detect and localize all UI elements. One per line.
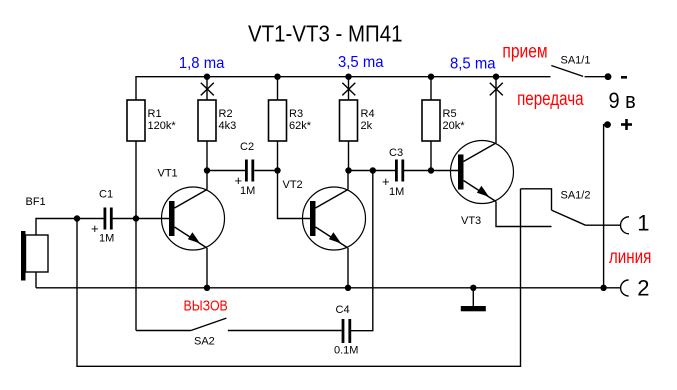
node junction top R5 [428, 74, 434, 80]
svg-text:передача: передача [517, 89, 584, 110]
measurement break X at VT3 collector [490, 83, 503, 96]
svg-text:20k*: 20k* [443, 120, 466, 132]
wire C4 right lead up to middle bus [350, 171, 373, 331]
node junction top VT3 collector [493, 74, 499, 80]
measurement break X at R4 [342, 83, 355, 96]
svg-text:9 в: 9 в [609, 88, 636, 113]
resistor R3 [269, 100, 287, 141]
wire R3 bottom lead [277, 141, 279, 171]
wire BF1 top lead [36, 219, 77, 236]
svg-text:4k3: 4k3 [219, 120, 237, 132]
svg-text:1M: 1M [389, 186, 404, 198]
wire R1 bottom lead to base node [135, 141, 137, 219]
wire battery plus to line [604, 125, 608, 288]
svg-text:C3: C3 [389, 147, 403, 159]
wire VT2 collector lead [347, 171, 349, 190]
node junction R5 bottom / VT3 base [428, 167, 434, 173]
ground symbol [461, 288, 486, 312]
terminal 1 socket [621, 217, 630, 234]
loudspeaker BF1 [21, 231, 48, 281]
svg-text:120k*: 120k* [148, 120, 177, 132]
transistor VT1 [162, 187, 225, 250]
svg-text:1M: 1M [99, 233, 114, 245]
wire speaker return bottom [77, 189, 521, 366]
resistor R2 [198, 100, 216, 141]
svg-text:R4: R4 [361, 108, 375, 120]
svg-text:8,5 ma: 8,5 ma [450, 56, 496, 73]
svg-text:ВЫЗОВ: ВЫЗОВ [184, 298, 228, 315]
battery minus terminal [605, 73, 612, 80]
svg-text:R3: R3 [289, 108, 303, 120]
wire C2 right lead [254, 170, 277, 172]
svg-text:VT1: VT1 [158, 168, 178, 180]
svg-text:C2: C2 [240, 141, 254, 153]
wire VT1 collector lead [206, 171, 208, 190]
node junction top R4 [345, 74, 351, 80]
wire ground rail [36, 287, 604, 289]
svg-text:C4: C4 [336, 304, 350, 316]
wire C1 left lead [77, 218, 104, 220]
wire C3 right lead [403, 170, 431, 172]
svg-text:+: + [91, 221, 99, 236]
svg-text:R1: R1 [148, 108, 162, 120]
svg-text:1,8 ma: 1,8 ma [179, 55, 225, 72]
wire R5 bottom lead [430, 141, 432, 171]
wire VT2 base feed [278, 171, 312, 219]
wire C2 left lead [207, 170, 245, 172]
resistor R1 [127, 100, 145, 141]
wire to terminal 2 [604, 287, 621, 289]
wire VT3 base lead [431, 170, 460, 172]
switch SA1/1 [551, 66, 605, 77]
battery plus terminal [604, 121, 611, 128]
terminal 2 socket [621, 280, 629, 296]
svg-text:C1: C1 [99, 189, 113, 201]
wire R5 top lead [430, 77, 432, 100]
svg-text:2: 2 [637, 276, 649, 301]
svg-text:62k*: 62k* [289, 120, 312, 132]
svg-text:VT3: VT3 [461, 215, 481, 227]
node junction VT1 base / R1 / SA2 [133, 215, 139, 221]
svg-text:VT1-VT3 - МП41: VT1-VT3 - МП41 [248, 20, 403, 46]
wire SA2 branch from base node [135, 219, 137, 331]
resistor R4 [340, 100, 358, 141]
wire BF1 bottom lead [35, 272, 37, 288]
switch SA1/2 [521, 189, 621, 225]
transistor VT2 [303, 187, 366, 250]
node junction terminal 2 [600, 285, 606, 291]
svg-text:SA1/2: SA1/2 [561, 190, 591, 202]
node junction top R2 [204, 74, 210, 80]
wire R3 top lead [277, 77, 279, 100]
svg-text:1: 1 [637, 211, 649, 236]
wire VT3 collector lead [495, 77, 497, 143]
node junction C1 left / speaker top [74, 215, 80, 221]
node junction VT1 emitter on rail [204, 285, 210, 291]
node junction R4 bottom / VT2 collector / C3 left [345, 167, 351, 173]
switch SA2 [136, 318, 342, 330]
node junction C4 branch [370, 167, 376, 173]
wire VT1 emitter lead [206, 248, 208, 288]
wire R4 bottom lead [348, 141, 350, 171]
resistor R5 [422, 100, 440, 141]
measurement break X at R2 [201, 83, 214, 96]
svg-text:1M: 1M [240, 185, 255, 197]
wire VT1 base lead [136, 218, 171, 220]
label plus [621, 119, 632, 130]
svg-text:R5: R5 [443, 108, 457, 120]
svg-text:SA2: SA2 [194, 336, 215, 348]
node junction ground on rail [470, 285, 476, 291]
node junction VT1 collector / C2 left [204, 167, 210, 173]
wire top bus [136, 77, 551, 100]
svg-text:R2: R2 [219, 108, 233, 120]
svg-text:VT2: VT2 [283, 179, 303, 191]
wire VT2 emitter lead [347, 248, 349, 288]
transistor VT3 [451, 141, 514, 204]
capacitor C1 [105, 208, 111, 230]
svg-text:SA1/1: SA1/1 [561, 55, 591, 67]
capacitor C3 [396, 160, 402, 182]
svg-text:BF1: BF1 [26, 196, 46, 208]
wire R4 top lead [348, 77, 350, 100]
svg-text:3,5 ma: 3,5 ma [338, 54, 384, 71]
svg-text:прием: прием [502, 41, 547, 62]
node junction R3 bottom / VT2 base feed [274, 167, 280, 173]
wire VT3 emitter lead [496, 202, 552, 227]
svg-text:линия: линия [609, 247, 652, 268]
node junction top R3 [274, 74, 280, 80]
node junction VT2 emitter on rail [345, 285, 351, 291]
wire R2 top lead [206, 77, 208, 100]
wire middle bus to C3 [349, 170, 396, 172]
wire R2 bottom lead [206, 141, 208, 171]
capacitor C2 [246, 160, 252, 182]
capacitor C4 [343, 319, 350, 343]
label minus [621, 76, 627, 79]
svg-text:2k: 2k [361, 120, 373, 132]
wire C1 right lead [112, 218, 137, 220]
svg-text:0.1M: 0.1M [334, 345, 358, 357]
